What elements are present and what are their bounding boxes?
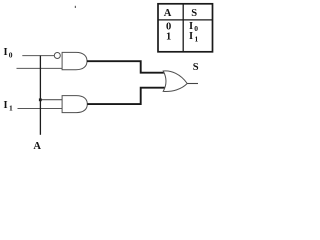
svg-text:S: S [191,8,197,19]
svg-text:1: 1 [195,34,199,43]
svg-text:I: I [189,31,193,42]
svg-text:1: 1 [9,103,13,112]
svg-text:I: I [4,100,8,111]
svg-text:0: 0 [9,50,13,59]
svg-text:S: S [193,62,199,73]
svg-text:A: A [33,141,41,152]
svg-text:A: A [164,8,172,19]
svg-text:I: I [4,47,8,58]
svg-text:0: 0 [194,24,198,33]
svg-text:1: 1 [166,32,171,43]
